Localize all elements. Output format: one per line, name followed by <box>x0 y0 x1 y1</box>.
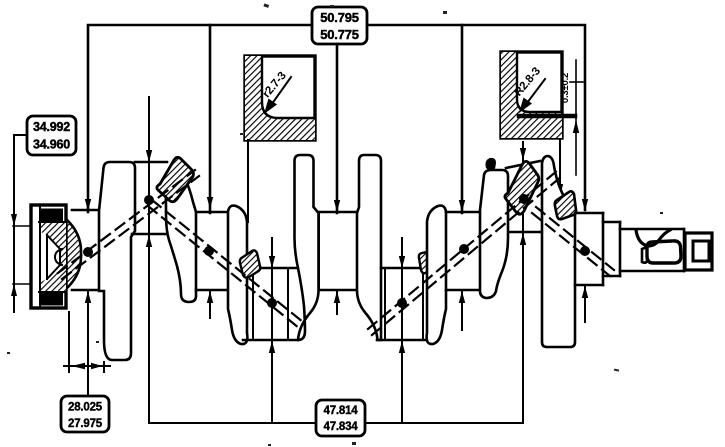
web W5 <box>357 155 381 340</box>
arrow flange bore lower <box>11 284 17 296</box>
wire crankpin dimension right <box>365 142 523 423</box>
node main journal 4 <box>459 244 469 254</box>
arrow main journal 5 bottom <box>582 286 588 298</box>
arrow flange bore upper <box>11 214 17 226</box>
node main journal 1 <box>83 247 93 257</box>
main journal 5 <box>575 213 603 285</box>
svg-text:47.834: 47.834 <box>324 421 359 433</box>
web W8 section (hatched) <box>555 191 576 219</box>
crankpin 4 section (hatched) <box>505 161 539 214</box>
fillet detail inset 1 <box>245 56 315 140</box>
dimension box 34.992/34.960 <box>27 116 76 155</box>
wire crankpin 3 lower leader <box>401 342 403 423</box>
arrow main journal 4 bottom <box>459 291 465 303</box>
web W1 <box>99 162 135 360</box>
wire main journal 4 lower tail <box>461 290 463 330</box>
keyway detail <box>636 230 670 246</box>
main journal 1 <box>72 210 99 290</box>
node crankpin 1 <box>144 195 154 205</box>
web W8 <box>542 156 575 347</box>
svg-text:47.814: 47.814 <box>324 405 359 417</box>
node main journal 5 <box>580 246 590 256</box>
tick flange bore lower <box>13 283 32 285</box>
crankpin 3 end faces <box>385 268 423 340</box>
nose step sprocket journal <box>620 229 684 271</box>
svg-text:34.992: 34.992 <box>33 120 70 134</box>
wire fillet leader W8 <box>559 138 561 186</box>
wire crankpin 2 lower leader <box>271 342 273 423</box>
throw centerline S1 <box>58 170 199 279</box>
crankpin 3 <box>377 268 431 340</box>
arrow fillet W8 <box>557 184 563 196</box>
wire crankpin 3 upper leader <box>401 238 403 342</box>
crankpin 2 <box>243 268 298 340</box>
main journal 3 <box>319 212 357 290</box>
main journal 4 <box>446 212 480 290</box>
nose step seal journal <box>603 213 620 285</box>
arrow crankpin 4 bottom <box>520 233 526 245</box>
arrow main journal 2 bottom <box>207 291 213 303</box>
svg-text:50.795: 50.795 <box>320 10 359 25</box>
web W7 <box>480 170 508 298</box>
wire crankpin dimension left <box>149 97 316 423</box>
crankpin 2 fillet section (hatched) <box>240 250 260 277</box>
arrow crankpin 1 bottom <box>146 235 152 247</box>
arrow main journal 3 bottom <box>334 291 340 303</box>
dimension box 50.795/50.775 <box>312 7 367 44</box>
tick flange bore upper <box>13 225 32 227</box>
throw centerline S2 <box>148 200 303 328</box>
fillet detail inset 2 <box>501 52 575 138</box>
svg-text:27.975: 27.975 <box>68 418 103 430</box>
node main journal 2 <box>204 246 214 256</box>
main journal 2 <box>196 212 228 290</box>
crankpin 1 <box>132 162 167 234</box>
dimension undercut 0.3±0.2 <box>560 60 583 175</box>
crankpin 2 end faces <box>253 268 288 340</box>
svg-text:34.960: 34.960 <box>33 138 70 152</box>
arrow crankpin 3 bottom <box>399 341 405 353</box>
svg-text:0.3±0.2: 0.3±0.2 <box>560 73 571 103</box>
arrow main journal 1 bottom <box>85 291 91 303</box>
svg-text:50.775: 50.775 <box>320 27 359 42</box>
wire main journal 3 lower leader <box>336 290 338 314</box>
dimension main journal 1 width <box>64 312 110 372</box>
wire main journal 5 lower tail <box>584 285 586 322</box>
wire top dimension line <box>88 25 585 213</box>
throw centerline S4 <box>532 207 614 276</box>
nose threaded end <box>685 233 712 270</box>
web W6 <box>427 206 446 344</box>
arrow crankpin 1 top <box>146 150 152 162</box>
svg-text:28.025: 28.025 <box>68 402 103 414</box>
arrow crankpin 2 top <box>269 256 275 268</box>
throw centerline S3 <box>368 170 562 335</box>
arrow main journal 3 top <box>334 200 340 212</box>
web W4 <box>295 155 319 340</box>
web W7 fillet cap <box>486 158 497 170</box>
crankpin 4 <box>506 161 541 232</box>
wire leader from box 34.992 <box>14 135 27 312</box>
arrow crankpin 3 top <box>399 256 405 268</box>
wire box 28.025 vertical <box>87 290 89 396</box>
flange (rear, sectioned) <box>31 205 81 308</box>
arrow main journal 2 top <box>207 197 213 209</box>
web W3 <box>228 206 247 344</box>
crankpin 3 fillet section (hatched) <box>419 251 438 273</box>
arrow main journal 5 top <box>582 199 588 211</box>
dimension box 47.814/47.834 <box>316 400 365 436</box>
node crankpin 3 <box>397 298 407 308</box>
wire inset 1 extension <box>247 140 249 222</box>
wire crankpin 2 upper leader <box>271 238 273 342</box>
arrow main journal 4 top <box>459 200 465 212</box>
wire main journal 2 lower tail <box>209 290 211 318</box>
arrow main journal 1 top <box>85 199 91 211</box>
dimension box 28.025/27.975 <box>61 396 109 432</box>
node crankpin 2 <box>267 298 277 308</box>
arrow crankpin 2 bottom <box>269 341 275 353</box>
crankpin 1 section (hatched) <box>157 157 194 202</box>
web W2 <box>166 167 196 302</box>
node crankpin 4 <box>519 194 529 204</box>
